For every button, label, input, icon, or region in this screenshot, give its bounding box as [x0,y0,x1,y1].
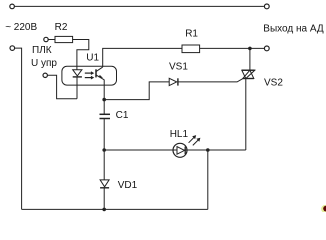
wire: left vertical down to bottom rail [15,48,22,209]
terminal: lower ~220V input [10,46,15,51]
lamp HL1 (LED indicator) [173,135,200,157]
svg-text:C1: C1 [116,110,129,121]
diode VS1 [169,78,178,85]
terminal: top-right output to motor [264,4,269,9]
terminal: U upr control input [43,73,47,77]
junction: HL1 branch node [102,148,106,152]
svg-text:ПЛК: ПЛК [32,45,52,56]
wire: node A to VS1 anode [104,82,169,100]
wire: C1 down to VD1 [103,119,105,180]
resistor R1 [182,45,200,53]
diode VD1 [100,180,109,210]
svg-text:VS2: VS2 [264,78,283,89]
svg-text:U1: U1 [86,53,99,64]
U1 LED (anode top, cathode bar below) [73,70,82,99]
terminal: top-left ~220V input [10,4,15,9]
capacitor C1 [100,114,111,118]
junction: R1 / VS2 / output [248,47,252,51]
red watermark dot bottom-right corner [321,205,326,213]
wire: junction down to bottom rail [207,150,209,209]
svg-text:HL1: HL1 [170,129,189,140]
svg-text:U упр: U упр [31,58,57,69]
terminal: output circle at R1 line [264,46,269,51]
wire: U1 collector up and right to R1 [103,48,182,67]
U1 phototransistor [96,67,104,80]
junction: HL1 line / down branch [206,148,210,152]
wire: VS2 MT2 from junction [249,48,251,70]
svg-text:R1: R1 [185,29,198,40]
svg-text:Выход на АД: Выход на АД [263,23,324,34]
junction: node A (emitter / C1 / VS1) [102,98,106,102]
wire: VS2 MT1 down to HL1 line [245,79,247,151]
wire: R1 right lead to output terminal [200,47,264,49]
U1 optocoupler light arrows [85,71,94,79]
wire: U1 emitter down to node A [103,80,105,115]
wire: HL1 horizontal line [104,149,246,151]
terminal: PLC control input [44,37,48,41]
wire: bottom rail [22,208,208,210]
triac VS2 [242,70,255,78]
wire: U1 LED cathode to U upr terminal [47,75,77,99]
wire: VS1 cathode to VS2 gate [178,79,243,82]
svg-text:VD1: VD1 [118,180,138,191]
svg-text:~ 220В: ~ 220В [5,22,37,33]
wire: R2 to U1 LED anode [73,40,89,70]
wire: top 220V rail [15,5,264,7]
resistor R2 [48,36,72,42]
junction: VD1 / bottom rail [102,208,106,212]
optocoupler U1 body [62,66,117,85]
svg-text:VS1: VS1 [169,62,188,73]
svg-text:R2: R2 [55,22,68,33]
